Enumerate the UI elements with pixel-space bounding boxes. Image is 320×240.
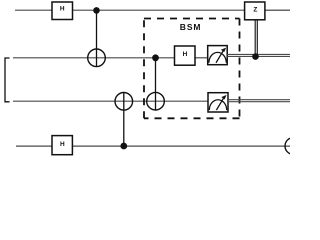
gate H2 on q4 (52, 136, 72, 155)
BSM dashed box (144, 19, 240, 119)
control dot CNOT3 on q2 (152, 54, 159, 61)
svg-text:Z: Z (253, 7, 257, 14)
wire q3 (13, 100, 208, 102)
wire q2 segment between H and meter (195, 57, 208, 59)
wire CNOT2 vertical (123, 93, 125, 146)
wire CNOT1 vertical (96, 10, 98, 67)
cnot target X3 on q3 (147, 92, 165, 110)
classical wire c1 double horizontal from M1 (227, 54, 290, 56)
bracket entangled pair (5, 58, 10, 102)
junction dot classical (252, 53, 259, 60)
classical wire c2 double horizontal from M2 (228, 100, 290, 102)
control dot CNOT2 on q4 (120, 143, 127, 150)
classical wire c1 double vertical to Z (255, 20, 257, 57)
svg-text:H: H (60, 6, 65, 13)
control dot CNOT1 on q1 (93, 7, 100, 14)
svg-text:BSM: BSM (180, 22, 202, 32)
wire q4 segment right (73, 145, 291, 147)
cnot target X1 on q2 (88, 49, 106, 67)
svg-text:H: H (60, 141, 65, 148)
wire q2 segment left (13, 57, 175, 59)
cnot target X2 on q3 (115, 93, 133, 111)
gate Z on q1 (245, 2, 265, 20)
measurement M2 on q3 (208, 93, 228, 112)
svg-text:H: H (183, 51, 188, 58)
cnot target X4 on q4 at right edge (285, 138, 302, 155)
gate H1 on q1 (52, 2, 73, 20)
wire q1 segment middle (73, 9, 245, 11)
wire X4 vertical cross (292, 138, 294, 155)
wire CNOT3 vertical (155, 58, 157, 110)
gate H3 in BSM on q2 (175, 46, 196, 65)
wire q4 segment left (16, 145, 52, 147)
wire q1 segment left (15, 9, 52, 11)
measurement M1 on q2 (208, 46, 228, 65)
wire q1 segment right (265, 9, 290, 11)
